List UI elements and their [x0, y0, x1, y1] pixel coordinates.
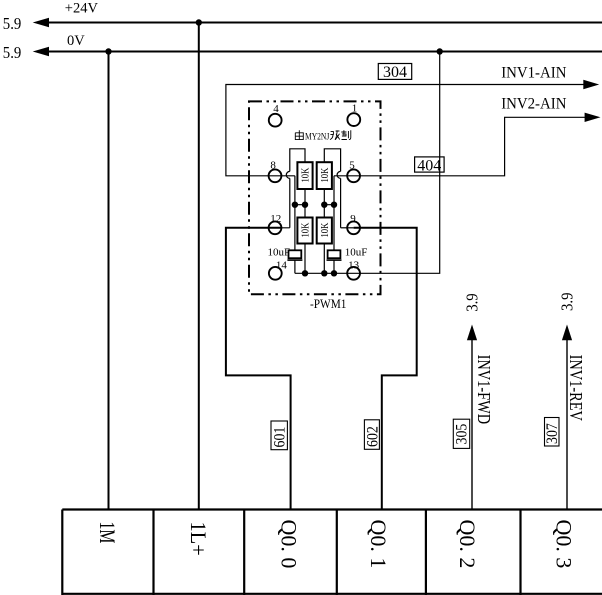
label box 307 [545, 418, 560, 447]
svg-text:307: 307 [544, 423, 561, 444]
pin 12 [269, 221, 282, 234]
svg-text:10uF: 10uF [345, 247, 368, 259]
wire R4 lead to rail [323, 244, 325, 274]
pin 13 [347, 267, 360, 280]
wire pin9 to Q0.1 [354, 228, 417, 510]
wire R3 lead to rail [304, 244, 306, 274]
svg-text:INV1-FWD: INV1-FWD [473, 355, 494, 425]
arrowhead 0V left [33, 47, 49, 56]
junction dot 0V/1M [105, 48, 111, 54]
hanzi 改 [330, 130, 340, 139]
arrowhead INV2-AIN [585, 113, 601, 122]
svg-text:9: 9 [350, 213, 356, 225]
svg-text:404: 404 [417, 158, 441, 175]
svg-text:1: 1 [352, 103, 358, 115]
svg-text:5.9: 5.9 [3, 44, 22, 62]
label box 304 [378, 64, 411, 80]
svg-text:304: 304 [383, 64, 407, 81]
label box 602 [364, 420, 379, 450]
wire pin12 to Q0.0 [226, 228, 291, 510]
node B wires [324, 176, 334, 251]
junction dot 0V drop [437, 48, 443, 54]
wire hop right [337, 171, 340, 178]
arrowhead INV1-AIN [583, 80, 599, 89]
svg-text:-PWM1: -PWM1 [310, 296, 346, 311]
svg-text:Q0. 0: Q0. 0 [277, 520, 302, 569]
pin 5 [347, 169, 360, 182]
wire top rail left (pin12 riser to R1 top) [290, 149, 305, 228]
label 由MY2NJ改制 [295, 130, 351, 141]
label box 601 [271, 421, 287, 450]
net 0V rail [46, 51, 602, 53]
junction dots node B [321, 202, 327, 208]
wire Q0.2 up arrow INV1-FWD [471, 339, 473, 510]
svg-text:12: 12 [270, 213, 281, 225]
wire 1M drop [108, 52, 110, 510]
arrowhead +24V left [33, 18, 49, 27]
label box 404 [415, 157, 445, 172]
resistor R1 10K [297, 162, 312, 189]
svg-text:305: 305 [454, 424, 471, 445]
svg-text:10K: 10K [319, 222, 331, 238]
svg-text:3.9: 3.9 [559, 292, 577, 311]
junction dots node A [292, 202, 298, 208]
svg-text:13: 13 [348, 259, 360, 271]
svg-text:1M: 1M [94, 522, 118, 544]
wire Q0.3 up arrow INV1-REV [566, 339, 568, 510]
wire hop left [286, 171, 289, 178]
svg-text:Q0. 2: Q0. 2 [455, 520, 480, 569]
pin 4 [269, 114, 282, 127]
svg-text:INV1-REV: INV1-REV [565, 355, 586, 422]
svg-text:MY2NJ: MY2NJ [305, 132, 330, 142]
svg-text:5: 5 [349, 160, 355, 172]
pin 14 [269, 267, 282, 280]
svg-text:INV1-AIN: INV1-AIN [501, 64, 566, 82]
net +24V rail [46, 22, 602, 24]
resistor R3 10K [297, 218, 312, 244]
svg-text:+24V: +24V [65, 0, 99, 16]
wire pin9 stub left [341, 227, 354, 229]
terminal table verticals [61, 510, 63, 595]
wire 1L+ drop [198, 23, 200, 510]
svg-text:Q0. 1: Q0. 1 [366, 520, 391, 569]
pin 8 [269, 169, 282, 182]
terminal table top border [62, 508, 602, 510]
pin 9 [347, 221, 360, 234]
svg-text:0V: 0V [67, 33, 85, 49]
terminal table bottom border [62, 593, 602, 595]
junction dots bottom rail [302, 270, 308, 276]
svg-text:10uF: 10uF [268, 247, 291, 259]
capacitor C2 10uF [328, 250, 341, 258]
svg-text:602: 602 [365, 426, 382, 447]
pin 1 [347, 113, 360, 126]
hanzi 制 [341, 130, 351, 139]
wire pin12 stub right [269, 227, 290, 229]
capacitor C1 10uF [289, 250, 302, 258]
resistor R4 10K [317, 218, 332, 244]
wire pin5 to INV2-AIN [334, 117, 586, 176]
svg-text:10K: 10K [300, 167, 312, 183]
svg-text:8: 8 [270, 160, 276, 172]
svg-text:1L+: 1L+ [186, 522, 211, 556]
wire top rail right (pin9 riser to R2 top) [324, 149, 340, 228]
relay PWM1 dash-dot box [249, 101, 381, 294]
node A wires [295, 176, 305, 251]
svg-text:5.9: 5.9 [3, 15, 22, 33]
resistor R2 10K [317, 162, 332, 189]
svg-text:INV2-AIN: INV2-AIN [501, 95, 566, 113]
label box 305 [453, 419, 469, 448]
svg-text:Q0. 3: Q0. 3 [552, 520, 577, 569]
svg-text:10K: 10K [319, 167, 331, 183]
svg-text:14: 14 [276, 259, 288, 271]
svg-text:3.9: 3.9 [464, 293, 482, 312]
junction dot +24V/1L+ [196, 19, 202, 25]
hanzi 由 [295, 130, 303, 139]
wire pin8 to INV1-AIN [226, 85, 585, 176]
wire 0V to pin13 rail [295, 52, 440, 274]
svg-text:4: 4 [273, 103, 279, 115]
svg-text:10K: 10K [300, 222, 312, 238]
svg-text:601: 601 [272, 427, 289, 448]
